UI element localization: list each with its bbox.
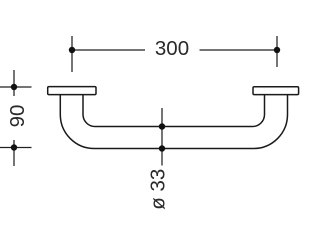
svg-text:90: 90 <box>6 105 29 128</box>
left dimension tick <box>13 70 15 96</box>
grab bar tube inner profile <box>83 95 265 127</box>
diameter dimension vertical line <box>161 108 163 166</box>
svg-text:ø 33: ø 33 <box>146 169 169 210</box>
top dimension line right segment <box>200 49 278 51</box>
left dimension dot <box>11 84 17 90</box>
left flange plate <box>48 87 96 95</box>
top dimension right dot <box>274 47 280 53</box>
diameter dimension lower dot <box>159 145 165 151</box>
top dimension left dot <box>69 47 75 53</box>
left dimension lower tick <box>13 140 15 166</box>
diameter dimension upper dot <box>159 123 165 129</box>
svg-text:300: 300 <box>155 37 189 60</box>
top dimension line left segment <box>72 49 145 51</box>
top dimension left tick <box>71 36 73 72</box>
grab bar tube outer profile <box>60 95 287 149</box>
left dimension line <box>0 86 32 88</box>
top dimension right tick <box>276 36 278 67</box>
left dimension lower line <box>0 147 32 149</box>
left dimension lower dot <box>11 144 17 150</box>
right flange plate <box>253 87 299 95</box>
